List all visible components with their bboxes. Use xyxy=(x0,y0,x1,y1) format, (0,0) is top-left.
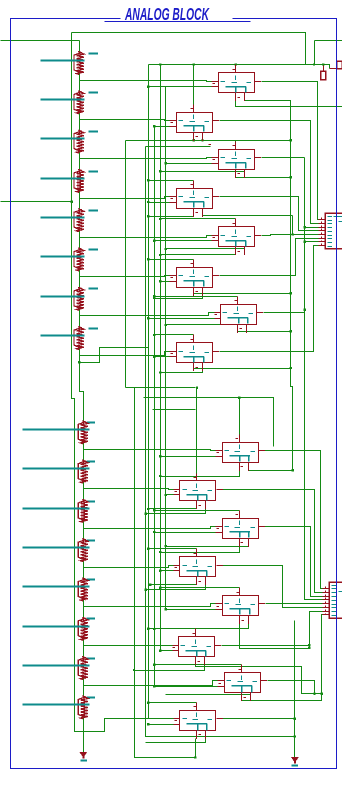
resistor R16 xyxy=(78,695,88,719)
op-amp cell U10 xyxy=(174,474,224,510)
wire ground 2 feed xyxy=(294,621,296,758)
wire U11 b1 xyxy=(159,545,240,554)
wire net R16 to U16 input xyxy=(84,719,174,732)
wire U5 top feed xyxy=(159,218,236,220)
wire feedback to I pin2 xyxy=(159,455,216,457)
wire U7 b1 xyxy=(238,330,292,332)
wire bundle V166 xyxy=(165,87,167,610)
wire fuse feed xyxy=(322,63,324,71)
wire U3 top feed xyxy=(126,141,236,142)
wire U6 b2 xyxy=(153,292,202,300)
wire U6 out xyxy=(220,239,319,276)
wire stub tap R2 xyxy=(89,92,99,94)
wire bus B upper vertical xyxy=(79,41,81,363)
node bus junction y362 xyxy=(78,361,80,363)
op-amp cell U2 xyxy=(170,105,220,142)
wire U2 out xyxy=(220,121,319,224)
wire net R7 to U7 input xyxy=(80,313,215,316)
wire U16 top feed xyxy=(147,701,196,703)
wire U16 b2 xyxy=(146,737,206,743)
svg-text:ANALOG BLOCK: ANALOG BLOCK xyxy=(124,4,209,24)
wire stub tap R8 xyxy=(89,328,99,330)
wire U9 top feed xyxy=(238,397,240,435)
wire stub tap R16 xyxy=(87,697,96,699)
wire input net IN10 xyxy=(23,468,90,470)
op-amp cell U13 xyxy=(216,588,266,625)
wire input net IN16 xyxy=(23,704,90,706)
resistor R1 xyxy=(74,51,84,75)
wire U11 top feed xyxy=(153,509,239,511)
wire bundle V148 xyxy=(148,65,150,719)
wire U13 top feed xyxy=(159,586,240,588)
wire bus B lower vertical xyxy=(83,421,85,753)
wire U1 b2 chain xyxy=(126,97,292,142)
op-amp cell U3 xyxy=(212,142,262,179)
wire U12 b1 xyxy=(149,583,197,586)
wire U7 top feed xyxy=(153,295,237,297)
wire feedback to P pin2 xyxy=(147,723,173,725)
wire U2 top feed xyxy=(193,63,195,104)
wire bundle V126 xyxy=(125,141,127,388)
wire gap stair 1 xyxy=(144,398,274,447)
wire input net IN2 xyxy=(41,99,85,101)
wire U8 top feed xyxy=(153,334,193,336)
op-amp cell U4 xyxy=(170,181,220,218)
ground GND2 xyxy=(292,757,299,765)
wire stub tap R9 xyxy=(87,422,96,424)
wire U4 b2 xyxy=(203,213,294,236)
wire bottom rail 2 xyxy=(194,739,196,759)
wire off-page link xyxy=(330,68,337,70)
wire stub tap R1 xyxy=(89,53,99,55)
wire feedback to H pin2 xyxy=(153,356,169,358)
wire feedback to F pin2 xyxy=(159,280,170,282)
wire rail y147 xyxy=(146,145,212,147)
wire input net IN5 xyxy=(41,217,85,219)
wire U14 b2 xyxy=(133,663,205,672)
op-amp cell U11 xyxy=(216,511,266,548)
wire feedback to K pin2 xyxy=(153,531,215,533)
wire U10 top feed xyxy=(196,386,198,473)
wire U14 b1 xyxy=(196,663,316,696)
wire bundle V134 xyxy=(126,388,196,758)
wire input net IN3 xyxy=(41,138,85,140)
wire feedback to G pin2 xyxy=(147,317,214,319)
wire stub tap R5 xyxy=(89,210,99,212)
wire rail V304 xyxy=(305,158,323,600)
wire stub tap R12 xyxy=(87,540,96,542)
wire U3 b1 xyxy=(236,176,292,179)
wire net R9 to U9 input xyxy=(84,450,216,451)
wire gap stair 2 xyxy=(153,409,196,411)
wire net R10 to U10 input xyxy=(84,489,174,490)
wire input net IN6 xyxy=(41,256,85,258)
resistor R4 xyxy=(74,169,84,193)
resistor R7 xyxy=(74,287,84,311)
wire U6 top feed xyxy=(147,258,193,260)
op-amp cell U12 xyxy=(174,549,224,586)
op-amp cell U15 xyxy=(218,665,268,702)
wire U13 b1 xyxy=(240,622,311,650)
wire feedback to L pin2 xyxy=(159,570,174,572)
wire U13 out xyxy=(266,603,323,605)
wire input net IN13 xyxy=(23,586,90,588)
wire long feedback V291 xyxy=(291,141,294,472)
resistor R3 xyxy=(74,130,84,154)
wire stub tap R4 xyxy=(89,171,99,173)
wire U4 top feed xyxy=(147,179,193,181)
wire U3 out xyxy=(262,157,305,159)
wire net R5 to U5 input xyxy=(80,236,212,238)
wire bottom rail 1 xyxy=(207,736,295,738)
resistor R15 xyxy=(78,656,88,680)
wire input net IN1 xyxy=(41,60,85,62)
wire U5 b1 xyxy=(159,253,236,257)
wire bus B gap jog xyxy=(80,363,84,421)
wire feedback to E pin2 xyxy=(153,240,211,242)
resistor R12 xyxy=(78,538,88,562)
wire feedback to N pin2 xyxy=(159,650,173,652)
wire feedback to O pin2 xyxy=(153,685,217,687)
wire gap crossover to bundle xyxy=(80,348,149,363)
wire U16 out xyxy=(223,718,297,720)
port off-page right xyxy=(337,61,342,68)
wire feedback to A pin2 xyxy=(147,86,211,88)
wire bundle V146 xyxy=(146,147,295,737)
wire top rail y33 xyxy=(72,33,306,65)
op-amp cell U6 xyxy=(170,260,220,297)
wire U8 out xyxy=(220,246,319,352)
op-amp cell U7 xyxy=(215,297,264,334)
wire U15 b2 xyxy=(166,695,251,697)
ground GND1 xyxy=(80,752,87,760)
wire feedback to B pin2 xyxy=(153,125,169,127)
wire U12 out xyxy=(223,566,323,608)
wire U9 out xyxy=(265,451,323,589)
wire U1 b1 long xyxy=(236,99,342,107)
wire U2 b2 xyxy=(201,139,203,142)
wire stub tap R11 xyxy=(87,501,96,503)
wire U9 b2 xyxy=(249,467,293,471)
resistor R6 xyxy=(74,247,84,271)
wire feedback to M pin2 xyxy=(165,608,216,610)
op-amp cell U1 xyxy=(212,65,262,102)
title ANALOG BLOCK xyxy=(105,4,251,24)
wire stub tap R15 xyxy=(87,658,96,660)
wire feedback to D pin2 xyxy=(147,201,169,203)
wire input net IN4 xyxy=(41,178,85,180)
wire net R13 to U13 input xyxy=(84,604,216,607)
wire U8 b2 xyxy=(159,367,203,374)
wire bundle V160 xyxy=(160,65,162,651)
wire net R12 to U12 input xyxy=(84,566,174,568)
wire bundle V154 xyxy=(154,127,156,687)
op-amp cell U5 xyxy=(212,219,262,256)
connector J1 xyxy=(319,213,342,249)
wire net R15 to U15 input xyxy=(84,681,218,686)
wire U12 top feed xyxy=(147,548,196,550)
resistor R5 xyxy=(74,208,84,232)
resistor R13 xyxy=(78,577,88,601)
wire U14 out xyxy=(222,612,323,649)
wire conn pin3 tap xyxy=(303,226,318,228)
wire bus A vertical xyxy=(72,33,84,732)
wire input net IN8 xyxy=(41,335,85,337)
wire net R1 to U1 input xyxy=(80,81,212,82)
wire U4 out xyxy=(220,197,319,231)
wire net R11 to U11 input xyxy=(84,527,216,529)
resistor R11 xyxy=(78,499,88,523)
node junction V160 top xyxy=(159,63,161,65)
wire U1 out xyxy=(262,82,319,220)
op-amp cell U8 xyxy=(170,335,220,372)
wire U5 out xyxy=(262,235,319,236)
wire net R8 to U8 input xyxy=(80,352,170,356)
wire input net IN14 xyxy=(23,626,90,628)
wire U10 b1 xyxy=(147,507,196,511)
wire net R3 to U3 input xyxy=(80,158,212,159)
wire left input y202 xyxy=(1,201,73,203)
wire U15 top feed xyxy=(153,664,241,666)
wire U16 b1 xyxy=(196,737,198,739)
wire stub tap R13 xyxy=(87,579,96,581)
wire U13 b2 xyxy=(153,620,248,631)
wire input net IN15 xyxy=(23,665,90,667)
wire U4 b1 xyxy=(147,215,193,218)
resistor R14 xyxy=(78,617,88,641)
wire feedback to C pin2 xyxy=(165,162,212,164)
connector J2 xyxy=(323,582,342,618)
wire stub tap R6 xyxy=(89,249,99,251)
wire U5 b2 xyxy=(165,248,245,251)
wire U15 b1 xyxy=(242,615,323,701)
wire U3 b2 xyxy=(159,170,245,173)
wire input net IN7 xyxy=(41,296,85,298)
wire U11 b2 xyxy=(165,543,249,548)
fuse F1 xyxy=(321,71,326,79)
wire U8 b1 long xyxy=(194,367,292,369)
wire stub tap R7 xyxy=(89,288,99,290)
wire bus B entry xyxy=(1,40,80,42)
wire U10 out xyxy=(223,490,323,593)
wire U2 b1 xyxy=(193,139,195,142)
wire net R6 to U6 input xyxy=(80,276,170,277)
wire top rail y64 xyxy=(149,65,330,69)
resistor R8 xyxy=(74,326,84,350)
wire net R2 to U2 input xyxy=(80,120,170,121)
wire U15 out xyxy=(268,681,324,696)
wire U7 out xyxy=(264,241,319,313)
wire U10 b2 xyxy=(145,507,206,515)
resistor R9 xyxy=(78,420,88,444)
wire top right rail xyxy=(315,40,342,42)
wire U9 b1 xyxy=(159,469,240,478)
wire U14 top feed xyxy=(147,628,195,630)
op-amp cell U14 xyxy=(173,629,222,666)
wire net R14 to U14 input xyxy=(84,645,173,647)
wire stub tap R14 xyxy=(87,618,96,620)
wire feedback to J pin2 xyxy=(165,494,174,496)
wire U7 b2 xyxy=(165,324,247,329)
wire U6 b1 long xyxy=(194,292,292,294)
wire top right drop xyxy=(313,41,315,66)
wire input net IN9 xyxy=(23,429,90,431)
wire net R4 to U4 input xyxy=(80,197,170,199)
op-amp cell U16 xyxy=(174,703,224,740)
wire stub tap R10 xyxy=(87,461,96,463)
resistor R2 xyxy=(74,90,84,114)
resistor R10 xyxy=(78,460,88,484)
wire input net IN11 xyxy=(23,508,90,510)
wire U1 top feed xyxy=(235,63,237,65)
op-amp cell U9 xyxy=(216,435,266,472)
wire stub tap R3 xyxy=(89,131,99,133)
wire U12 b2 xyxy=(145,583,206,591)
wire input net IN12 xyxy=(23,547,90,549)
wire U11 out xyxy=(265,527,323,597)
